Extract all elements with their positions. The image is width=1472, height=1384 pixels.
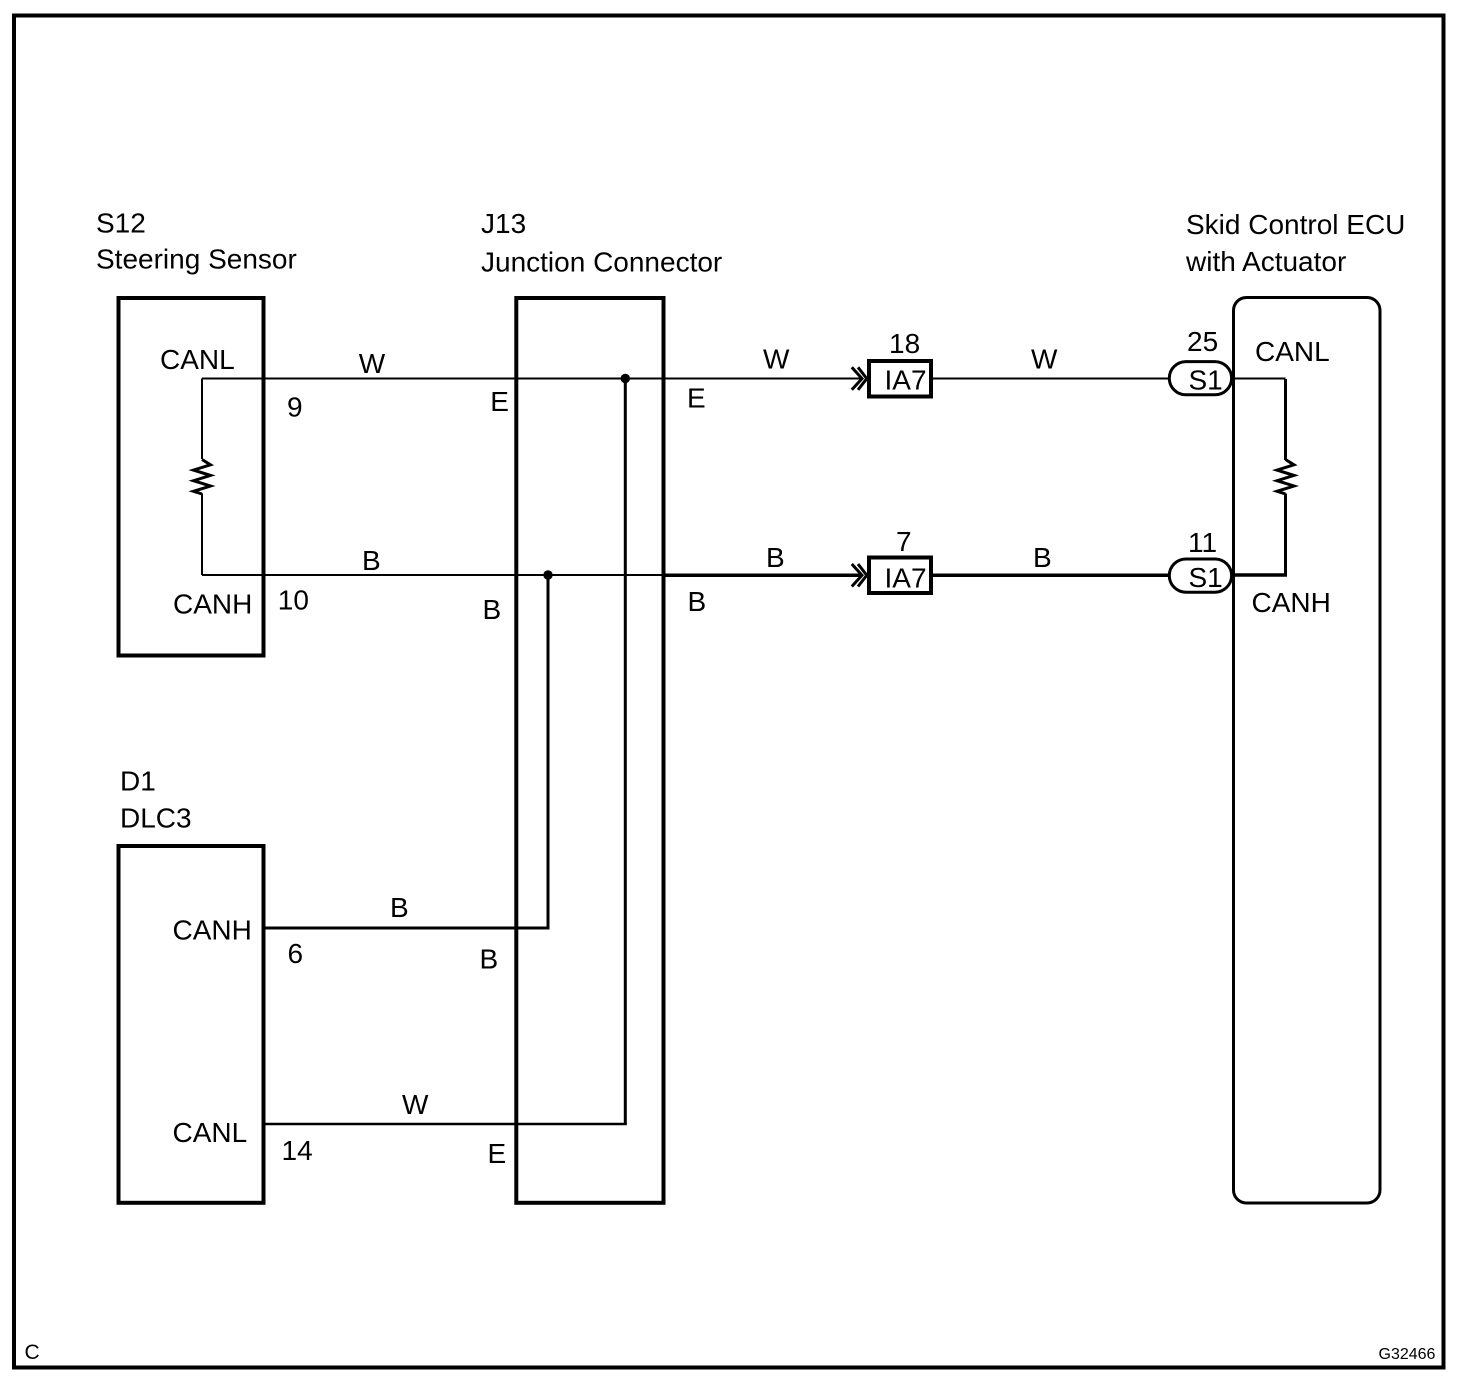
- splice arrow CANL row chevron 1: [852, 367, 862, 390]
- resistor R(S12) upper lead: [201, 379, 203, 460]
- svg-text:CANH: CANH: [1252, 587, 1331, 618]
- svg-text:W: W: [402, 1089, 429, 1120]
- wire CANH vertical inside J13 to DLC3 pin 6: [547, 575, 550, 928]
- svg-text:B: B: [390, 892, 409, 923]
- wire CANH net: IA7 to S1 pin 11: [931, 573, 1170, 577]
- svg-text:W: W: [359, 348, 386, 379]
- svg-text:S1: S1: [1189, 562, 1223, 593]
- wire CANH net: S12 pin 10 to junction J13: [202, 574, 663, 576]
- svg-text:Steering Sensor: Steering Sensor: [96, 244, 297, 275]
- svg-text:CANL: CANL: [1255, 336, 1330, 367]
- connector S1 oval (CANH row): [1169, 559, 1231, 592]
- resistor R(ECU) lower lead: [1284, 494, 1287, 576]
- svg-text:B: B: [362, 545, 381, 576]
- svg-text:E: E: [687, 383, 706, 414]
- svg-text:E: E: [490, 386, 509, 417]
- svg-text:B: B: [766, 542, 785, 573]
- svg-text:CANH: CANH: [173, 589, 252, 620]
- wire CANH net: DLC3 pin 6 to junction J13: [264, 927, 550, 930]
- svg-text:DLC3: DLC3: [120, 803, 192, 834]
- resistor R(ECU) upper lead: [1284, 379, 1287, 460]
- svg-text:W: W: [763, 343, 790, 374]
- svg-text:S12: S12: [96, 208, 146, 239]
- svg-text:B: B: [480, 944, 499, 975]
- wire CANL net: DLC3 pin 14 to junction J13: [264, 1123, 627, 1126]
- wire CANL net: S12 pin 9 to splice IA7: [202, 378, 862, 380]
- splice arrow CANH row chevron 2: [858, 564, 867, 587]
- resistor R(S12) zigzag body: [194, 460, 211, 495]
- junction node dot CANH: [543, 570, 552, 579]
- wire CANH stub inside ECU: [1232, 573, 1287, 577]
- svg-text:9: 9: [287, 392, 303, 423]
- svg-text:CANH: CANH: [173, 915, 252, 946]
- svg-text:W: W: [1031, 343, 1058, 374]
- svg-text:CANL: CANL: [173, 1117, 248, 1148]
- skid control ECU box: [1234, 298, 1381, 1204]
- svg-text:Junction Connector: Junction Connector: [481, 246, 722, 277]
- wire CANL vertical inside J13 to DLC3 pin 14: [624, 379, 627, 1125]
- wire CANH net: J13 to splice IA7: [662, 573, 863, 577]
- svg-text:G32466: G32466: [1379, 1346, 1436, 1363]
- svg-text:S1: S1: [1189, 365, 1223, 396]
- splice arrow CANH row chevron 1: [852, 564, 862, 587]
- svg-text:B: B: [688, 586, 707, 617]
- connector IA7 box (CANL row): [869, 361, 931, 397]
- svg-text:Skid Control ECU: Skid Control ECU: [1186, 209, 1405, 240]
- wire CANL stub inside ECU: [1232, 378, 1286, 380]
- wire CANL net: IA7 to S1 pin 25: [931, 378, 1170, 380]
- splice arrow CANL row chevron 2: [858, 367, 867, 390]
- svg-text:IA7: IA7: [885, 563, 927, 594]
- svg-text:D1: D1: [120, 766, 156, 797]
- svg-text:10: 10: [278, 584, 309, 615]
- resistor R(ECU) zigzag body: [1277, 460, 1294, 495]
- steering sensor box S12: [119, 298, 264, 656]
- svg-text:7: 7: [896, 526, 912, 557]
- svg-text:11: 11: [1188, 527, 1217, 558]
- svg-text:14: 14: [282, 1135, 313, 1166]
- junction connector box J13: [516, 298, 663, 1203]
- svg-text:B: B: [483, 594, 502, 625]
- svg-text:6: 6: [288, 938, 304, 969]
- svg-text:IA7: IA7: [885, 365, 927, 396]
- svg-text:C: C: [25, 1341, 40, 1364]
- svg-text:CANL: CANL: [160, 344, 235, 375]
- DLC3 box D1: [119, 846, 264, 1203]
- junction node dot CANL: [621, 374, 630, 383]
- svg-text:E: E: [488, 1138, 507, 1169]
- resistor R(S12) lower lead: [201, 494, 203, 576]
- connector S1 oval (CANL row): [1169, 362, 1231, 395]
- svg-text:18: 18: [889, 328, 920, 359]
- svg-text:with Actuator: with Actuator: [1185, 246, 1346, 277]
- svg-text:J13: J13: [481, 208, 526, 239]
- svg-text:B: B: [1033, 542, 1052, 573]
- connector IA7 box (CANH row): [869, 558, 931, 594]
- svg-text:25: 25: [1187, 326, 1218, 357]
